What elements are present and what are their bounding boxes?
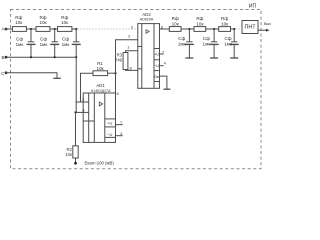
svg-text:+U: +U <box>107 120 112 125</box>
resistor Rф3 <box>58 27 72 32</box>
capacitor Сф5 <box>210 29 219 58</box>
AD1 pin 4 stub <box>116 135 123 137</box>
svg-text:Rф: Rф <box>61 15 68 20</box>
svg-text:1мк: 1мк <box>62 42 71 47</box>
svg-text:749: 749 <box>115 57 123 62</box>
svg-text:1мк: 1мк <box>40 42 49 47</box>
svg-text:10к: 10к <box>172 21 180 26</box>
resistor R3 (AD2 gain) wires <box>126 51 138 53</box>
ground (node C) <box>53 77 60 79</box>
wire AD1 pin3 row <box>76 111 84 113</box>
output arrow <box>266 29 270 32</box>
junction after Rф5 <box>213 28 215 30</box>
junction Сф2 on B rail <box>54 56 56 58</box>
svg-text:−U: −U <box>107 132 112 137</box>
resistor Rф2 <box>36 27 50 32</box>
svg-text:0в: 0в <box>154 74 158 79</box>
resistor R1 (feedback) <box>93 71 108 76</box>
svg-text:AD2: AD2 <box>142 12 151 17</box>
wire Rф2 to Rф3 <box>50 28 58 30</box>
svg-text:ИП: ИП <box>249 4 257 10</box>
block ПНТ (voltage to current converter) <box>242 21 258 34</box>
junction node after Rф3 <box>75 28 77 30</box>
wire vertical bus AD1 out to AD2 pin 2 <box>116 40 138 96</box>
capacitor Сф4 <box>185 29 194 58</box>
junction after Rф6 <box>233 28 235 30</box>
svg-text:1мк: 1мк <box>224 41 233 46</box>
svg-text:10к: 10к <box>221 21 229 26</box>
resistor R3 bottom wire to pin 8 <box>126 69 138 72</box>
dashed enclosure border of measuring transducer <box>11 10 262 169</box>
AD1 pin 7 stub <box>116 124 123 126</box>
svg-text:Сф: Сф <box>16 36 23 41</box>
svg-text:10к: 10к <box>61 20 69 25</box>
junction R1 right <box>114 72 116 74</box>
in-amp AD2 body <box>138 24 160 89</box>
wire R2 to calibration terminal <box>75 158 77 163</box>
junction after Rф4 <box>188 28 190 30</box>
svg-text:−U: −U <box>154 63 159 68</box>
svg-text:10к: 10к <box>15 20 23 25</box>
wire R1 right to vertical bus <box>108 72 116 74</box>
capacitor Сф6 <box>230 29 239 58</box>
junction Сф1 on B rail <box>30 56 32 58</box>
wire Rф5 to Rф6 <box>206 28 219 30</box>
wire AD1 pin2 row <box>76 101 81 103</box>
dotted wire to AD2 pin 3 <box>78 28 138 30</box>
ground (AD2 0в) <box>163 88 170 90</box>
svg-text:10к: 10к <box>65 152 72 157</box>
resistor R2 <box>73 146 78 158</box>
svg-text:Сф: Сф <box>62 36 69 41</box>
node B <box>5 56 8 59</box>
wire node A to R_f1 <box>6 28 12 30</box>
svg-text:C: C <box>1 71 4 76</box>
svg-text:ПНТ: ПНТ <box>244 25 256 31</box>
svg-text:Rф: Rф <box>15 15 22 20</box>
wire pin3 down to R2 <box>75 112 77 145</box>
resistor R3 body <box>123 53 128 70</box>
svg-text:К140УД17А: К140УД17А <box>91 89 111 93</box>
wire Rф3 to junction <box>72 28 76 30</box>
wire Rф4 to Rф5 <box>181 28 194 30</box>
svg-text:1мк: 1мк <box>203 41 212 46</box>
svg-text:Rф: Rф <box>39 15 46 20</box>
svg-text:10к: 10к <box>39 20 47 25</box>
dotted wire to ПНТ <box>236 28 243 30</box>
wire ПНТ output <box>258 29 267 31</box>
resistor Rф4 <box>169 27 181 32</box>
ground (Сф4) <box>185 57 193 59</box>
svg-text:10к: 10к <box>196 21 204 26</box>
wire R1 left to AD1 pin 2 <box>81 73 94 102</box>
resistor Rф5 <box>194 27 206 32</box>
wire node C to ground <box>6 73 57 78</box>
junction node after Rф1 <box>30 28 32 30</box>
node C <box>5 71 8 74</box>
svg-text:A: A <box>1 27 4 32</box>
op-amp AD1 triangle glyph <box>99 102 102 106</box>
svg-text:B: B <box>1 55 4 60</box>
junction node after Rф2 <box>54 28 56 30</box>
capacitor Сф2 <box>50 29 59 57</box>
capacitor Сф1 <box>27 29 36 57</box>
ground (Сф5) <box>210 57 218 59</box>
resistor Rф1 <box>12 27 26 32</box>
ground (Сф6) <box>230 57 238 59</box>
svg-text:1мк: 1мк <box>178 41 187 46</box>
op-amp AD1 body <box>83 93 115 142</box>
svg-text:Вых: Вых <box>264 22 271 26</box>
wire AD2 out to Rф4 <box>160 28 170 30</box>
in-amp AD2 triangle glyph <box>146 30 149 34</box>
resistor Rф6 <box>219 27 231 32</box>
svg-text:10к: 10к <box>96 66 104 71</box>
AD2 pin 7 stub <box>160 53 164 55</box>
junction AD1 pin3 / R2 <box>74 111 76 113</box>
capacitor Сф3 <box>72 29 81 57</box>
junction Сф3 on B rail <box>75 56 77 58</box>
svg-text:+U: +U <box>154 52 159 57</box>
wire Rф1 to Rф2 <box>26 28 36 30</box>
wire B rail down to AD1 pin 3 <box>75 57 78 112</box>
node A <box>5 28 8 31</box>
wire node B rail <box>6 56 76 58</box>
svg-text:Екал=100 (мВ): Екал=100 (мВ) <box>85 160 115 165</box>
AD2 pin 4 stub <box>160 65 164 67</box>
svg-text:AD1: AD1 <box>96 83 105 88</box>
svg-text:Сф: Сф <box>40 36 47 41</box>
wire Rф6 to junction <box>231 28 235 30</box>
AD2 0в wire to ground <box>160 76 167 89</box>
terminal Екал <box>74 162 77 165</box>
svg-text:1мк: 1мк <box>16 42 25 47</box>
svg-text:AD620A: AD620A <box>140 18 154 22</box>
